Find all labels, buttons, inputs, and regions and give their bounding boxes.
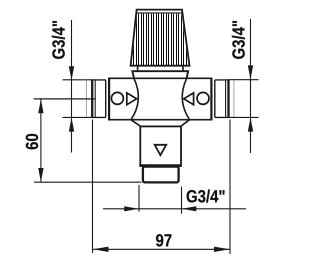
knob neck <box>138 66 183 72</box>
left port centerline <box>34 98 96 100</box>
dim 97: extension left <box>92 120 94 253</box>
body left edge <box>108 78 110 121</box>
port symbol triangle left (points right) <box>127 93 137 105</box>
dim 97: arrow pointing left <box>93 247 109 252</box>
port symbol circle right <box>197 92 209 104</box>
union nut left chamfer line <box>94 81 96 117</box>
knob (thermostat handle) <box>131 10 190 66</box>
dim right G3/4: extension bottom <box>229 116 259 118</box>
dim 97: arrow pointing right <box>214 247 230 252</box>
outlet direction triangle (points down) <box>155 145 167 155</box>
body right edge <box>210 78 212 121</box>
dim 60: dimension line <box>40 99 42 181</box>
bottom reference line <box>34 181 142 183</box>
dim 60: arrow down <box>38 168 43 182</box>
outlet box <box>140 126 181 165</box>
union nut right chamfer line <box>225 81 227 117</box>
port symbol circle left <box>111 92 123 104</box>
body bottom line <box>108 119 212 121</box>
dim right G3/4: arrow up <box>248 118 253 132</box>
knob ribs <box>134 13 187 66</box>
union nut left thick outer face <box>91 79 93 118</box>
outlet box bottom thick edge <box>140 164 182 167</box>
pipe stub end left (faint) <box>85 80 87 117</box>
dim left G3/4: extension bottom <box>63 116 93 118</box>
body top line <box>108 77 212 79</box>
dim bottom G3/4: arrow pointing right <box>124 206 139 211</box>
dim bottom G3/4: label <box>187 190 225 203</box>
union nut right thick outer face <box>227 79 229 118</box>
dim left G3/4: arrow up <box>69 118 74 132</box>
dim bottom G3/4: dimension line <box>103 208 246 210</box>
pipe stub end right (faint) <box>233 80 235 117</box>
dim bottom G3/4: arrow pointing left <box>182 206 197 211</box>
bonnet flange <box>132 71 188 78</box>
outlet shoulder left <box>131 120 141 127</box>
dim bottom G3/4: extension left <box>138 185 140 212</box>
outlet shoulder right <box>181 120 190 127</box>
dim 97: dimension line <box>93 248 231 250</box>
dim right G3/4: dimension line <box>250 19 252 153</box>
dim 60: label <box>26 134 38 149</box>
outlet nipple <box>143 167 179 183</box>
dim left G3/4: label <box>52 21 65 59</box>
dim 60: arrow up <box>38 99 43 113</box>
dim 97: extension right <box>229 120 231 255</box>
dim right G3/4: label <box>232 21 245 59</box>
dim left G3/4: extension top <box>63 79 93 81</box>
dim right G3/4: arrow down <box>248 65 253 79</box>
waist curve left <box>131 78 138 119</box>
waist curve right <box>182 78 189 119</box>
dim 97: label <box>156 234 171 246</box>
port symbol triangle right (points left) <box>184 93 194 105</box>
union nut right <box>215 80 229 118</box>
dim right G3/4: extension top <box>229 79 259 81</box>
dim left G3/4: dimension line <box>71 20 73 153</box>
dim left G3/4: arrow down <box>69 66 74 80</box>
dim bottom G3/4: extension right <box>181 187 183 214</box>
union nut left <box>92 80 106 118</box>
